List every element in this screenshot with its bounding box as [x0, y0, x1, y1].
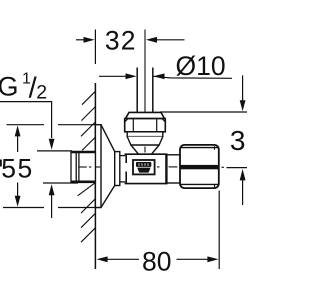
G 1/2 thread body: [71, 152, 95, 182]
svg-text:Ø10: Ø10: [176, 51, 226, 81]
neck groove collar: [120, 156, 126, 182]
svg-text:32: 32: [105, 26, 137, 56]
valve body right edge: [165, 154, 167, 185]
escutcheon bottom extension line: [3, 207, 101, 209]
centerline extension right: [227, 167, 248, 169]
dimension 55 lower arrow: [15, 183, 21, 207]
dimension 3x upper arrow: [240, 75, 246, 111]
escutcheon plate: [95, 125, 101, 208]
funnel into body: [131, 145, 159, 154]
thread bottom extension line: [43, 182, 78, 184]
compression nut collar: [126, 112, 165, 118]
dimension 3x lower arrow: [240, 169, 246, 205]
handle inner top edge: [181, 147, 219, 149]
wall face line: [94, 83, 96, 269]
dimension 3x top extension line: [160, 111, 247, 113]
dimension 80 right extension line: [218, 191, 220, 270]
dimension 32 line left with arrow: [76, 37, 95, 43]
dimension 55 upper arrow: [15, 125, 21, 152]
escutcheon neck ring: [115, 152, 120, 186]
wall hatch: [78, 91, 96, 242]
thread vertical lines: [76, 152, 79, 182]
compression nut hex: [125, 119, 166, 132]
dimension 80 line right with arrow: [177, 256, 219, 262]
escutcheon top extension line: [7, 124, 102, 126]
GROHE logo text band: [136, 162, 151, 167]
escutcheon cone: [101, 125, 115, 208]
thread bottom up arrow: [49, 184, 55, 218]
ring under nut: [127, 132, 163, 137]
handle knurl band: [180, 165, 219, 169]
handle right chamfer ticks: [214, 146, 216, 188]
svg-text:2: 2: [36, 81, 47, 103]
G 1/2 label: [0, 71, 47, 105]
pipe centerline: [144, 30, 146, 113]
GROHE logo box: [133, 160, 155, 174]
thread top extension line: [37, 150, 72, 152]
G 1/2 leader arrow: [49, 139, 55, 150]
valve body: [125, 154, 167, 183]
nut facet lines: [125, 119, 166, 132]
dimension O10 line right with arrow and shelf: [153, 73, 232, 79]
svg-text:3: 3: [230, 125, 246, 156]
G 1/2 leader line: [0, 102, 52, 138]
thread bottom crest line: [72, 181, 96, 184]
dimension 32 left extension line: [94, 30, 96, 65]
dimension 32 line right with arrow: [146, 37, 185, 43]
dimension 55 sliver of cut glyph: [0, 160, 2, 167]
svg-text:55: 55: [1, 153, 34, 183]
handle: [180, 145, 219, 188]
pipe: [137, 68, 153, 113]
cone under ring: [127, 137, 163, 145]
dimension O10 line left with arrow: [99, 73, 137, 79]
GROHE wreath: [137, 168, 150, 173]
main axis centerline: [78, 166, 224, 168]
valve stem: [168, 155, 180, 183]
svg-text:G: G: [0, 71, 19, 101]
svg-text:80: 80: [142, 247, 171, 277]
handle inner bottom edge: [181, 183, 219, 185]
dimension 80 line left with arrow: [97, 256, 140, 262]
funnel center tick: [144, 147, 146, 153]
thread top crest line: [72, 151, 96, 154]
